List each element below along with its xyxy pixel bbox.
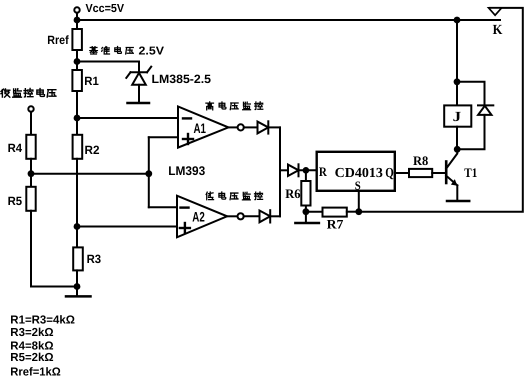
node relay/diode top: [454, 78, 461, 85]
svg-text:K: K: [493, 23, 503, 38]
IC U1 CD4013: [317, 152, 395, 191]
svg-text:R: R: [319, 164, 328, 179]
svg-text:R4: R4: [8, 141, 23, 155]
wire R3 to bottom node: [76, 270, 78, 286]
wire R2 to R3 (passes crossing): [76, 159, 78, 248]
svg-text:R5=2kΩ: R5=2kΩ: [10, 351, 53, 364]
wire node C to A2 non-inverting input: [77, 226, 177, 228]
wire D1 to OR node: [268, 126, 280, 128]
wire terminal to rail: [76, 13, 78, 20]
svg-text:R6: R6: [285, 186, 301, 201]
svg-text:S: S: [355, 179, 361, 193]
diode D2: [260, 211, 271, 223]
wire node A to zener branch: [77, 62, 139, 73]
ground (R6): [305, 212, 307, 223]
wire node E to R5: [30, 174, 32, 187]
wire mid rail vertical: [148, 137, 150, 207]
svg-text:R5: R5: [8, 194, 23, 208]
A1 output bubble: [238, 124, 244, 130]
wire R7 to node S: [347, 211, 359, 213]
svg-text:LM385-2.5: LM385-2.5: [152, 72, 212, 86]
node G (R pin / R6): [303, 167, 310, 174]
svg-text:R3=2kΩ: R3=2kΩ: [10, 326, 53, 339]
svg-text:2.5V: 2.5V: [139, 45, 165, 57]
svg-text:Q: Q: [385, 165, 394, 180]
wire bubble to D1: [244, 126, 258, 128]
diode D3: [288, 165, 299, 176]
resistor R3: [73, 247, 83, 270]
wire rail to Rref: [76, 20, 78, 29]
node junction rail/Rref: [74, 17, 81, 24]
ground (bottom): [76, 287, 78, 297]
wire node H to R7: [306, 211, 323, 213]
A2 output bubble: [238, 213, 244, 219]
resistor R4: [26, 135, 35, 159]
wire A1 output: [228, 126, 237, 128]
wire D3 to R pin: [299, 169, 317, 171]
node E (R4/R5 junction): [28, 170, 35, 177]
node H (R6/R7/gnd): [303, 208, 310, 215]
resistor R1: [72, 70, 82, 91]
svg-text:Rref=1kΩ: Rref=1kΩ: [10, 366, 61, 379]
wire to freewheel diode top: [457, 82, 485, 106]
resistor R7: [323, 208, 347, 217]
wire S pin stub: [358, 191, 360, 212]
freewheel diode D4: [478, 104, 493, 106]
node B (R1/R2 junction): [74, 115, 81, 122]
wire bubble to D2: [244, 215, 260, 217]
switch K contact triangle: [489, 8, 502, 15]
svg-text:R3: R3: [87, 252, 102, 266]
wire R4 to node E: [30, 159, 32, 174]
resistor Rref: [72, 29, 82, 50]
svg-text:LM393: LM393: [168, 164, 205, 178]
resistor R5: [26, 187, 35, 211]
wire R1 to node B: [76, 91, 78, 118]
label 基准电压 2.5V: [90, 47, 134, 54]
svg-text:T1: T1: [464, 165, 477, 180]
node D (bottom): [74, 283, 81, 290]
wire A2 output: [227, 215, 237, 217]
wire OR vertical (wired-OR of D1/D2): [279, 127, 281, 216]
diode D1: [258, 122, 269, 134]
wire node B to A1 inverting input: [77, 117, 178, 119]
resistor R8: [409, 169, 432, 177]
zener diode LM385-2.5: [126, 67, 151, 103]
ground (T1 emitter): [447, 200, 469, 203]
transistor T1: [446, 149, 457, 200]
wire node E to comparator mid rail: [31, 173, 149, 175]
svg-text:R1=R3=4kΩ: R1=R3=4kΩ: [10, 313, 75, 326]
node C (R2/R3 junction): [74, 223, 81, 230]
label 低电压监控: [206, 192, 262, 200]
node rail/relay branch: [454, 17, 461, 24]
node F (mid rail): [145, 170, 152, 177]
wire terminal to R4: [30, 112, 32, 135]
svg-text:A1: A1: [194, 121, 207, 136]
wire R8 to T1 base: [432, 172, 446, 174]
node collector: [454, 146, 461, 153]
svg-text:Vcc=5V: Vcc=5V: [86, 2, 125, 15]
svg-text:R2: R2: [85, 143, 100, 157]
node A (2.5V ref): [74, 58, 81, 65]
label 被监控电压: [1, 88, 56, 97]
wire node B to R2: [76, 118, 78, 135]
svg-text:R7: R7: [327, 217, 344, 232]
wire D4 bottom to collector node: [457, 115, 484, 149]
label 高电压监控: [206, 102, 263, 110]
svg-text:R8: R8: [413, 153, 429, 168]
svg-text:A2: A2: [192, 210, 205, 225]
wire top Vcc rail: [77, 19, 500, 21]
relay J: [444, 105, 471, 126]
wire R5 to bottom node: [31, 211, 77, 287]
wire R6 to node H: [305, 206, 307, 212]
svg-text:R1: R1: [84, 74, 99, 88]
wire relay to collector node: [456, 127, 458, 150]
wire OR node to D3: [280, 169, 288, 171]
resistor R2: [73, 135, 83, 159]
node S junction: [355, 208, 362, 215]
wire Rref to node A: [76, 50, 78, 62]
wire S node to right edge and up to switch: [359, 8, 523, 212]
wire node A to R1: [76, 62, 78, 71]
wire Q pin to R8: [395, 172, 409, 174]
wire node G to R6: [305, 170, 307, 181]
ground (LM385): [128, 102, 150, 105]
op-amp A2: [177, 196, 227, 238]
svg-text:J: J: [453, 110, 462, 125]
wire to A1 non-inverting input: [149, 136, 178, 138]
wire D2 to OR node: [270, 215, 280, 217]
terminal monitored voltage: [28, 106, 33, 111]
wire rail down to relay: [456, 20, 458, 105]
op-amp A1: [178, 107, 228, 148]
resistor R6: [301, 181, 310, 206]
terminal Vcc: [74, 7, 79, 12]
wire to A2 inverting input: [149, 206, 177, 208]
svg-text:Rref: Rref: [47, 33, 69, 47]
